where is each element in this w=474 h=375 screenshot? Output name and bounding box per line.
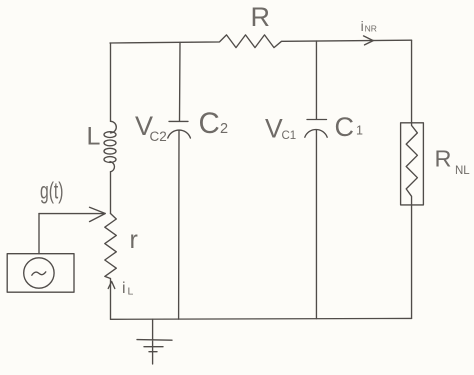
svg-text:r: r <box>130 226 138 254</box>
svg-text:V: V <box>265 114 283 144</box>
svg-text:L: L <box>87 123 101 151</box>
svg-text:C: C <box>335 112 355 142</box>
svg-text:C: C <box>199 107 220 140</box>
svg-text:i: i <box>361 18 364 34</box>
svg-text:2: 2 <box>220 121 228 137</box>
svg-text:R: R <box>435 146 452 172</box>
svg-text:NR: NR <box>365 23 377 33</box>
svg-text:C1: C1 <box>282 130 297 142</box>
svg-text:L: L <box>128 286 134 298</box>
svg-text:R: R <box>251 2 271 32</box>
svg-text:1: 1 <box>356 124 363 138</box>
svg-text:NL: NL <box>455 165 470 177</box>
svg-text:C2: C2 <box>150 129 167 144</box>
svg-text:i: i <box>122 280 126 297</box>
svg-text:g(t): g(t) <box>40 178 64 204</box>
